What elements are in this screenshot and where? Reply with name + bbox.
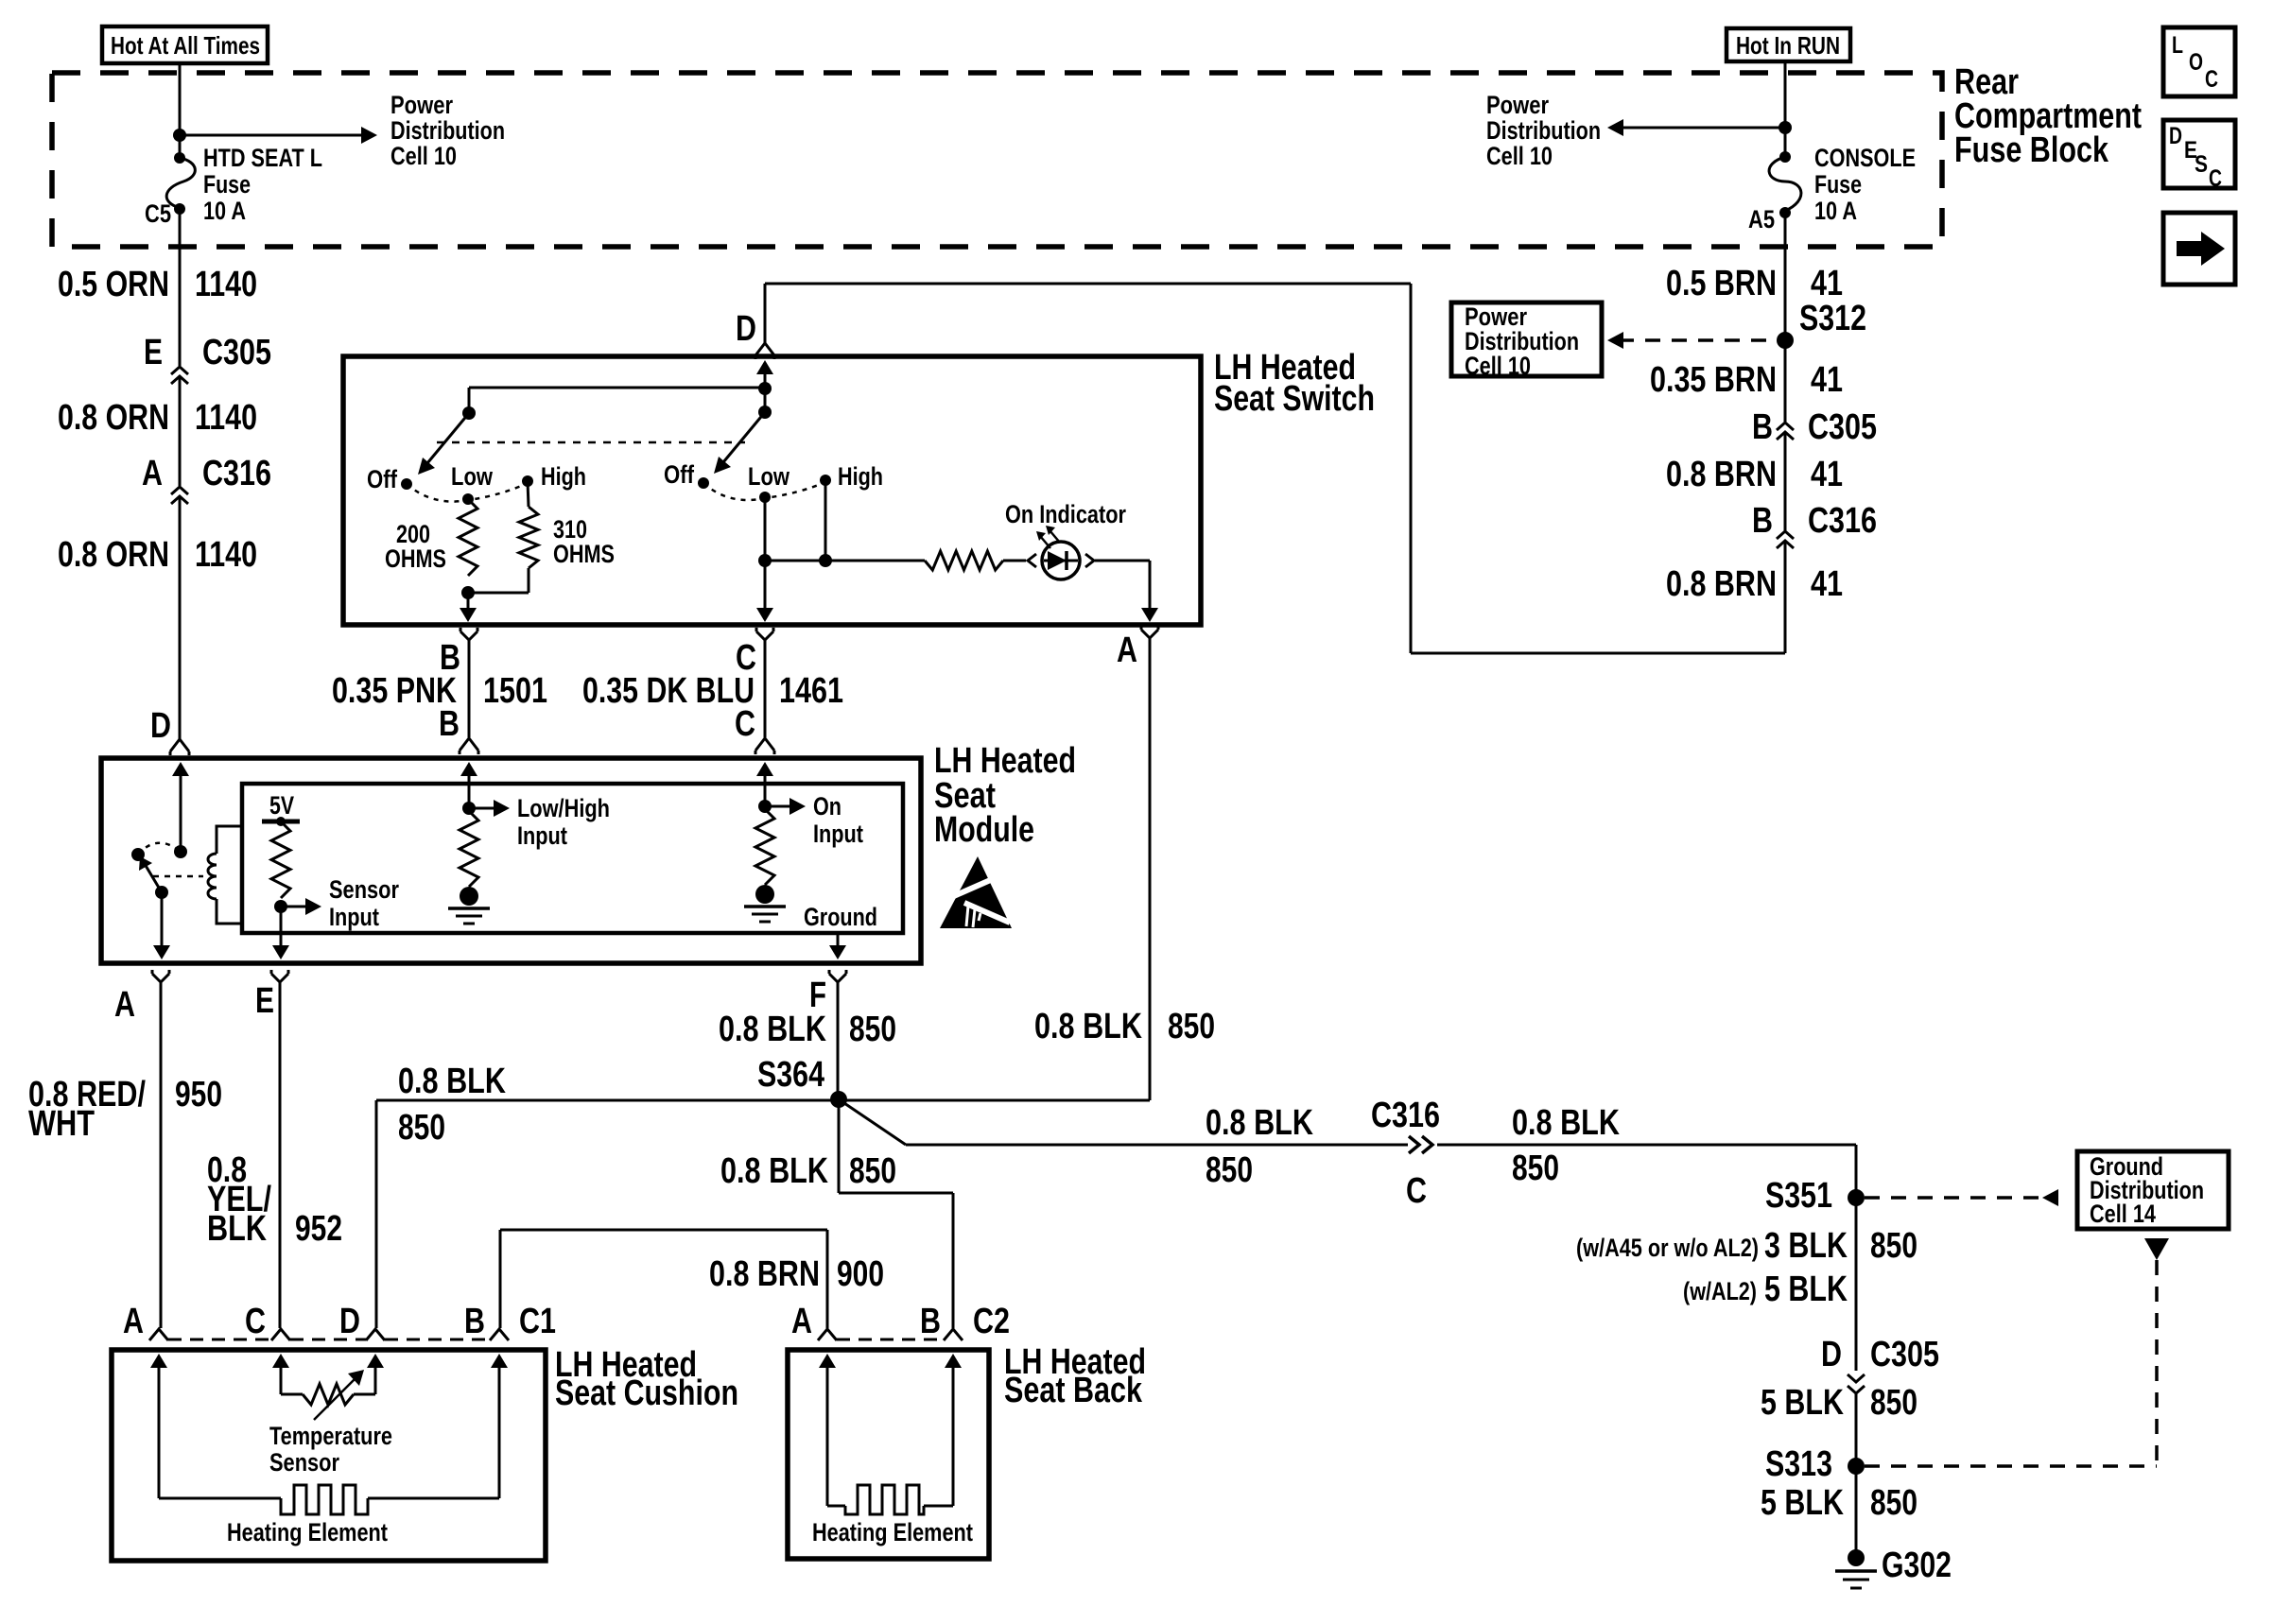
svg-text:0.5 ORN: 0.5 ORN	[58, 265, 169, 304]
ESD sensitivity symbol	[940, 856, 1012, 928]
svg-text:D: D	[1821, 1335, 1842, 1374]
svg-text:Distribution: Distribution	[1486, 116, 1601, 145]
node low-high input tap	[462, 802, 476, 815]
wire 3 BLK 850 segment	[1855, 1198, 1858, 1371]
connector C1 dashed line	[168, 1339, 271, 1341]
svg-text:E: E	[144, 333, 163, 372]
pin A of seat back	[818, 1329, 837, 1340]
svg-text:Hot In RUN: Hot In RUN	[1736, 31, 1840, 60]
svg-text:Input: Input	[813, 820, 863, 848]
svg-text:OHMS: OHMS	[385, 544, 446, 573]
svg-text:Input: Input	[517, 821, 567, 850]
svg-text:41: 41	[1811, 264, 1843, 303]
resistor sensor pullup	[271, 821, 290, 898]
svg-text:Sensor: Sensor	[269, 1448, 339, 1477]
pin B of cushion	[490, 1329, 509, 1340]
svg-text:B: B	[1752, 501, 1773, 541]
svg-text:0.8 BLK: 0.8 BLK	[720, 1151, 828, 1191]
svg-text:Module: Module	[934, 810, 1034, 850]
box LH Heated Seat Module outer	[101, 758, 921, 963]
svg-text:41: 41	[1811, 564, 1843, 604]
svg-text:Cell 10: Cell 10	[390, 142, 457, 170]
svg-text:Sensor: Sensor	[329, 875, 399, 904]
svg-text:5V: 5V	[269, 791, 294, 820]
legend box LOC	[2163, 27, 2235, 96]
wire cushion pin A internal	[150, 1354, 167, 1368]
svg-text:Cell 10: Cell 10	[1465, 352, 1531, 380]
svg-text:0.8 BLK: 0.8 BLK	[1512, 1103, 1620, 1143]
svg-text:Cell 10: Cell 10	[1486, 142, 1553, 170]
Rear Compartment Fuse Block dashed box	[52, 73, 1942, 247]
svg-text:Seat Cushion: Seat Cushion	[555, 1373, 738, 1413]
svg-text:D: D	[339, 1302, 360, 1341]
svg-text:Power: Power	[390, 91, 453, 119]
node LED branch high	[819, 554, 832, 567]
svg-text:0.35 DK BLU: 0.35 DK BLU	[582, 671, 755, 711]
LED on indicator	[1028, 554, 1036, 567]
svg-text:On Indicator: On Indicator	[1005, 500, 1126, 528]
box Power Distribution Cell 10	[1451, 302, 1602, 376]
wire 0.5 ORN 1140 segment	[179, 209, 182, 366]
connector C2 dashed line	[837, 1339, 944, 1341]
ground internal on	[755, 885, 774, 904]
svg-text:CONSOLE: CONSOLE	[1814, 144, 1916, 172]
resistor on input pulldown	[755, 809, 774, 885]
svg-text:0.8 BRN: 0.8 BRN	[1666, 455, 1777, 494]
svg-text:900: 900	[837, 1254, 884, 1294]
svg-text:Low: Low	[451, 462, 494, 491]
header box Hot In RUN	[1726, 28, 1850, 61]
svg-text:C1: C1	[519, 1302, 556, 1341]
svg-text:0.35 BRN: 0.35 BRN	[1650, 360, 1777, 400]
wire arrow to Power Distribution Cell 10 right	[1623, 127, 1785, 130]
svg-text:Hot At All Times: Hot At All Times	[111, 31, 260, 60]
box LH Heated Seat Cushion	[112, 1350, 546, 1561]
wire 0.5 BRN 41 segment	[1784, 213, 1787, 340]
svg-text:5 BLK: 5 BLK	[1764, 1270, 1848, 1309]
box LH Heated Seat Back	[788, 1350, 989, 1559]
legend box DESC	[2163, 120, 2235, 188]
svg-text:On: On	[813, 792, 842, 821]
svg-text:Fuse Block: Fuse Block	[1954, 130, 2109, 170]
wire 0.8 ORN 1140 segment	[179, 376, 182, 486]
pin B of switch below box	[460, 631, 477, 640]
resistor 200 OHMS	[459, 499, 477, 576]
dashed link armature to coil	[153, 875, 203, 878]
svg-text:C316: C316	[1371, 1096, 1440, 1135]
svg-text:950: 950	[175, 1075, 222, 1114]
wire 0.8 ORN 1140 lower segment	[179, 496, 182, 739]
wire S364 diagonal to ground run	[839, 1099, 906, 1145]
resistor low-high input pulldown	[460, 811, 478, 887]
svg-text:850: 850	[849, 1010, 896, 1049]
contact Off left	[401, 478, 412, 490]
wire module A internal	[161, 892, 164, 953]
wire module E internal	[280, 907, 283, 953]
svg-text:1461: 1461	[779, 671, 843, 711]
node LED branch low	[758, 554, 772, 567]
wire 0.8 RED/WHT 950	[160, 987, 163, 1328]
svg-text:C305: C305	[1808, 407, 1877, 447]
svg-text:Heating Element: Heating Element	[812, 1518, 973, 1546]
wire LED to A output	[1095, 560, 1150, 562]
svg-text:Temperature: Temperature	[269, 1422, 392, 1450]
svg-text:C305: C305	[202, 333, 271, 372]
dashed mechanical link between levers	[437, 441, 745, 444]
svg-text:B: B	[439, 704, 460, 744]
svg-text:A5: A5	[1748, 205, 1775, 233]
svg-text:BLK: BLK	[207, 1209, 267, 1249]
node left switch pivot	[462, 406, 476, 420]
node right switch feed	[758, 382, 772, 395]
svg-text:C: C	[2209, 165, 2222, 192]
wire 5 BLK 850 segment	[1855, 1393, 1858, 1466]
svg-text:0.8 BLK: 0.8 BLK	[398, 1062, 506, 1101]
box module inner	[242, 784, 903, 933]
svg-text:D: D	[736, 309, 756, 349]
svg-text:High: High	[838, 462, 883, 491]
wire ground run to S351	[1437, 1144, 1856, 1147]
pin C of cushion	[271, 1329, 290, 1340]
box LH Heated Seat Switch	[343, 356, 1201, 625]
dashed wire S351 to ground distribution	[1865, 1196, 2039, 1200]
dashed return path from ground distribution	[2144, 1238, 2169, 1260]
svg-text:Low: Low	[748, 462, 790, 491]
relay armature lever	[145, 864, 162, 892]
wire resistor to LED	[1003, 560, 1026, 562]
svg-text:S: S	[2195, 151, 2208, 178]
svg-text:0.8 BRN: 0.8 BRN	[1666, 564, 1777, 604]
svg-text:850: 850	[1870, 1226, 1917, 1266]
arrow on input	[765, 805, 791, 808]
wire S364 down branch to seat back B	[838, 1099, 841, 1193]
wire switch D internal	[756, 360, 773, 374]
wire module D internal	[172, 762, 189, 776]
resistor 310 OHMS	[528, 481, 529, 507]
svg-text:A: A	[1117, 631, 1137, 670]
ground G302	[1848, 1549, 1865, 1566]
pin F of module below	[829, 974, 846, 982]
wire 0.8 BRN 41 segment	[1784, 432, 1787, 530]
contact Low right	[759, 492, 771, 503]
box Ground Distribution Cell 14	[2077, 1151, 2229, 1229]
dashed wire to Power Distribution box	[1619, 338, 1777, 342]
svg-text:1140: 1140	[195, 265, 257, 304]
svg-text:0.8 BRN: 0.8 BRN	[709, 1254, 820, 1294]
wire hot-at-all-times feed	[179, 63, 182, 158]
svg-text:C: C	[2205, 66, 2218, 93]
wire cushion pin C internal	[272, 1354, 289, 1368]
svg-text:S351: S351	[1765, 1176, 1832, 1216]
wire 0.8 BLK 850 module F	[837, 987, 840, 1099]
resistor LED series	[925, 551, 1003, 570]
svg-text:C2: C2	[973, 1302, 1010, 1341]
wire 0.8 YEL/BLK 952	[279, 987, 282, 1328]
switch lever left	[427, 413, 469, 463]
wire module F internal ground	[837, 933, 840, 953]
svg-text:850: 850	[849, 1151, 896, 1191]
svg-text:HTD SEAT L: HTD SEAT L	[203, 144, 322, 172]
arrow low-high input	[469, 807, 495, 810]
svg-text:B: B	[464, 1302, 485, 1341]
wire LED branch	[765, 560, 925, 562]
svg-text:952: 952	[295, 1209, 342, 1249]
wire 0.8 BRN 900 cushion B to back A	[500, 1229, 827, 1232]
fuse CONSOLE 10A	[1779, 151, 1791, 163]
svg-text:A: A	[123, 1302, 144, 1341]
splice S364 node	[830, 1091, 847, 1108]
svg-text:C: C	[1406, 1171, 1427, 1211]
pin A of cushion	[149, 1329, 168, 1340]
svg-text:S312: S312	[1799, 299, 1866, 338]
svg-text:O: O	[2189, 49, 2203, 76]
node junction power distribution tap right	[1778, 121, 1792, 134]
svg-text:OHMS: OHMS	[553, 540, 615, 568]
svg-text:850: 850	[1168, 1007, 1215, 1046]
node relay armature pivot	[131, 848, 145, 861]
wire 0.8 BLK 850 from switch A	[1149, 641, 1152, 1100]
svg-text:C305: C305	[1870, 1335, 1939, 1374]
svg-text:Low/High: Low/High	[517, 794, 610, 822]
svg-text:G302: G302	[1882, 1546, 1952, 1585]
svg-text:C316: C316	[1808, 501, 1877, 541]
wire 5 BLK 850 to G302	[1855, 1466, 1858, 1558]
svg-text:0.8 BLK: 0.8 BLK	[719, 1010, 826, 1049]
pin C of switch below box	[756, 631, 773, 640]
LED light rays	[1040, 536, 1050, 548]
pin A of module below	[152, 974, 169, 982]
wire hot-in-run feed	[1784, 61, 1787, 157]
svg-text:Seat Back: Seat Back	[1004, 1371, 1143, 1410]
svg-text:A: A	[791, 1302, 812, 1341]
5V supply bar	[262, 820, 300, 824]
wire switch B output	[467, 593, 470, 613]
wire cushion pin D internal	[367, 1354, 384, 1368]
svg-text:(w/A45 or w/o AL2): (w/A45 or w/o AL2)	[1576, 1234, 1759, 1262]
wire back pin A internal	[819, 1354, 836, 1368]
wire 0.35 DK BLU 1461	[764, 645, 767, 737]
wire arrow to Power Distribution Cell 10	[180, 134, 361, 137]
node right switch pivot	[758, 406, 772, 419]
pin B of seat back	[944, 1329, 963, 1340]
node relay lower contact	[155, 886, 168, 899]
svg-text:1501: 1501	[483, 671, 547, 711]
svg-text:Power: Power	[1486, 91, 1549, 119]
dashed contact arc left	[407, 483, 528, 502]
wire module B internal	[460, 762, 477, 776]
svg-text:D: D	[150, 706, 171, 746]
svg-text:LH Heated: LH Heated	[934, 741, 1076, 781]
wire S364 right branch to switch A wire	[839, 1099, 1150, 1102]
node sensor input tap	[274, 900, 287, 913]
svg-text:Input: Input	[329, 903, 379, 931]
wire module C internal	[756, 762, 773, 776]
svg-text:A: A	[114, 985, 135, 1025]
svg-text:850: 850	[1870, 1383, 1917, 1423]
contact High right	[820, 475, 831, 486]
ground internal low-high	[460, 887, 478, 906]
svg-text:Ground: Ground	[804, 903, 877, 931]
relay coil	[217, 826, 242, 854]
wire cushion pin B internal	[491, 1354, 508, 1368]
svg-text:Fuse: Fuse	[203, 170, 251, 199]
wire link to left switch	[469, 387, 765, 389]
svg-text:850: 850	[1870, 1483, 1917, 1523]
svg-text:Fuse: Fuse	[1814, 170, 1862, 199]
dashed relay arc	[138, 843, 181, 855]
svg-text:Off: Off	[367, 465, 398, 493]
dashed contact arc right	[703, 482, 825, 500]
node relay fixed contact	[174, 845, 187, 858]
header box Hot At All Times	[102, 26, 268, 63]
svg-text:1140: 1140	[195, 535, 257, 575]
svg-text:850: 850	[398, 1108, 445, 1148]
fuse HTD SEAT L 10A	[174, 152, 185, 164]
svg-text:850: 850	[1206, 1150, 1253, 1190]
contact Off right	[698, 477, 709, 489]
svg-text:L: L	[2172, 32, 2183, 59]
wire 0.35 PNK 1501	[468, 645, 471, 737]
svg-text:10 A: 10 A	[203, 197, 246, 225]
contact High left	[522, 475, 533, 487]
svg-text:C: C	[735, 704, 755, 744]
svg-text:B: B	[1752, 407, 1773, 447]
svg-text:B: B	[920, 1302, 941, 1341]
svg-text:0.8 BLK: 0.8 BLK	[1034, 1007, 1142, 1046]
svg-text:1140: 1140	[195, 398, 257, 438]
wire 0.8 BRN 41 to switch	[1784, 541, 1787, 653]
wire high contact drop	[824, 480, 827, 561]
svg-text:D: D	[2169, 123, 2182, 149]
svg-text:A: A	[142, 454, 163, 493]
switch lever right	[723, 412, 765, 462]
svg-text:C5: C5	[145, 199, 171, 228]
wire 0.35 BRN 41 segment	[1784, 340, 1787, 422]
svg-text:5 BLK: 5 BLK	[1761, 1383, 1844, 1423]
svg-text:3 BLK: 3 BLK	[1764, 1226, 1848, 1266]
svg-text:0.8 BLK: 0.8 BLK	[1206, 1103, 1313, 1143]
arrow sensor input	[281, 906, 307, 908]
wire resistor bottoms join	[468, 592, 529, 595]
svg-text:10 A: 10 A	[1814, 197, 1857, 225]
svg-text:S364: S364	[757, 1055, 824, 1095]
legend box arrow	[2163, 213, 2235, 285]
svg-text:High: High	[541, 462, 586, 491]
svg-text:S313: S313	[1765, 1444, 1832, 1484]
svg-text:Cell 14: Cell 14	[2090, 1200, 2156, 1228]
svg-text:C316: C316	[202, 454, 271, 493]
svg-text:E: E	[255, 981, 274, 1021]
svg-text:Off: Off	[664, 460, 695, 489]
svg-text:41: 41	[1811, 455, 1843, 494]
svg-text:0.8 ORN: 0.8 ORN	[58, 535, 169, 575]
pin E of module below	[271, 974, 288, 982]
node on input tap	[758, 800, 772, 813]
svg-text:5 BLK: 5 BLK	[1761, 1483, 1844, 1523]
heating element seat back	[827, 1505, 845, 1508]
pin A of switch below box	[1141, 630, 1158, 638]
temperature sensor	[281, 1393, 303, 1396]
wire back pin B internal	[945, 1354, 962, 1368]
node junction power distribution tap left	[173, 129, 186, 142]
heating element cushion	[159, 1497, 281, 1500]
svg-text:WHT: WHT	[28, 1104, 95, 1144]
pin D of cushion	[366, 1329, 385, 1340]
svg-text:C: C	[245, 1302, 266, 1341]
svg-text:Seat Switch: Seat Switch	[1214, 379, 1375, 419]
svg-text:41: 41	[1811, 360, 1843, 400]
svg-text:Heating Element: Heating Element	[227, 1518, 388, 1546]
svg-text:Distribution: Distribution	[390, 116, 505, 145]
svg-text:0.5 BRN: 0.5 BRN	[1666, 264, 1777, 303]
svg-text:850: 850	[1512, 1149, 1559, 1188]
node resistor junction	[461, 586, 475, 599]
svg-text:(w/AL2): (w/AL2)	[1683, 1277, 1757, 1305]
wire low contact to C output	[764, 497, 767, 613]
contact Low left	[462, 493, 474, 505]
svg-text:0.8 ORN: 0.8 ORN	[58, 398, 169, 438]
wire S364 left branch to cushion D	[376, 1099, 839, 1102]
